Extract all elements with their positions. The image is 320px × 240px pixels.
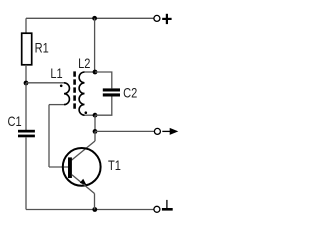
terminal V+ [154, 15, 160, 21]
emitter diagonal [72, 175, 95, 194]
svg-text:C1: C1 [8, 114, 22, 129]
output arrow [162, 128, 178, 135]
terminal ground [154, 206, 160, 212]
inductor L1 (primary winding, 2 turns) [64, 83, 69, 105]
wire R1 to node A [25, 65, 27, 83]
node collector/output [93, 129, 98, 134]
resistor R1 [22, 33, 32, 65]
wire collector lead vertical [94, 131, 96, 141]
wire emitter to bottom rail [94, 194, 96, 210]
svg-text:L1: L1 [50, 66, 62, 81]
svg-text:C2: C2 [123, 85, 137, 100]
wire C2 to tank bottom [95, 97, 112, 116]
wire tank top to C2 [95, 72, 112, 88]
wire bottom rail [26, 209, 154, 211]
transistor T1 circle [63, 148, 101, 186]
polarity dot L2 [85, 111, 88, 114]
svg-text:R1: R1 [35, 40, 49, 55]
transistor base bar [68, 157, 72, 178]
wire L2 bottom [85, 114, 96, 116]
capacitor C1 [18, 130, 35, 138]
terminal output [154, 128, 160, 134]
wire C1 to bottom rail [25, 137, 27, 209]
svg-text:L2: L2 [78, 56, 90, 71]
collector diagonal [72, 141, 95, 160]
wire to base [49, 166, 68, 168]
wire tank bottom to collector node [94, 115, 96, 131]
node junction top (V+ feed) [92, 16, 97, 21]
plus symbol [162, 14, 171, 24]
wire L1 bottom leftward [49, 104, 64, 106]
wire V+ feed down to L2 top [94, 18, 96, 72]
capacitor C2 [103, 88, 120, 96]
node A (R1 / L1 / C1) [24, 81, 29, 86]
wire L2 top [85, 71, 96, 73]
ground symbol [162, 200, 173, 209]
wire top rail [26, 17, 154, 19]
wire left rail upper [25, 18, 27, 33]
emitter arrowhead [80, 179, 87, 185]
inductor L2 (secondary winding, 4 turns) [79, 72, 84, 115]
node tank bottom [93, 113, 98, 118]
node emitter-bottom [92, 207, 97, 212]
transformer core (dashed) [73, 71, 76, 109]
wire node A to C1 [25, 83, 27, 130]
wire L1 down to base level [48, 105, 50, 167]
polarity dot L1 [60, 85, 63, 88]
node tank top [93, 70, 98, 75]
wire node A to L1 top [26, 82, 64, 84]
svg-text:T1: T1 [108, 158, 121, 173]
wire output [95, 130, 154, 132]
